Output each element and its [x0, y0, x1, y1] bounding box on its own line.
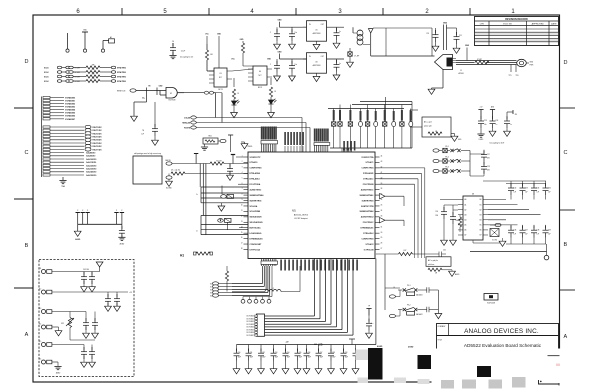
ground under FB1	[349, 56, 351, 62]
faint red artifact	[556, 364, 560, 367]
svg-text:DTRENABLE0: DTRENABLE0	[250, 237, 263, 240]
ground arrow under D1	[231, 113, 238, 118]
svg-text:33: 33	[381, 215, 383, 217]
svg-text:B1: B1	[480, 204, 482, 206]
svg-text:ROETE: ROETE	[184, 128, 191, 130]
net tie T3	[255, 297, 257, 300]
IC U8 level translator	[463, 196, 483, 240]
svg-text:R17: R17	[404, 250, 407, 252]
LED D2	[270, 97, 272, 100]
bus to Q flag	[470, 251, 547, 253]
ground TP below stack	[62, 177, 64, 180]
svg-text:UTDAC0: UTDAC0	[250, 161, 258, 164]
svg-text:DTRLADL2: DTRLADL2	[363, 232, 373, 235]
ground arrow at annotation box	[451, 133, 455, 135]
svg-text:GAL15/DX0: GAL15/DX0	[86, 174, 96, 177]
jack row 6 wire + bar ground	[52, 361, 58, 363]
resistor R17	[399, 252, 413, 255]
svg-text:DUTGND6: DUTGND6	[247, 332, 255, 334]
medium gray corruption blocks	[441, 380, 454, 389]
inductor L1 coil	[352, 27, 354, 33]
svg-text:B4: B4	[480, 219, 482, 221]
svg-text:44: 44	[381, 156, 383, 158]
wires from IC output arrows	[385, 195, 404, 197]
ground arrow under C25	[504, 131, 511, 136]
IC U1 right pin rows	[375, 156, 380, 158]
svg-text:C23: C23	[484, 120, 487, 122]
svg-text:C32: C32	[514, 188, 517, 190]
wire top rail to buffers	[206, 36, 208, 44]
svg-text:C57: C57	[320, 352, 323, 354]
ground arrow C57	[315, 369, 322, 374]
cap grid top rail	[483, 180, 546, 182]
svg-text:COLAB: COLAB	[184, 117, 191, 120]
svg-text:U2: U2	[170, 93, 172, 95]
bottom border line overlay	[33, 381, 431, 383]
svg-text:K3: K3	[210, 292, 212, 294]
jumper loop group 2 wires	[201, 215, 248, 217]
svg-text:J6: J6	[393, 287, 395, 289]
svg-text:C27: C27	[487, 154, 490, 156]
svg-text:10uF: 10uF	[308, 357, 311, 359]
prototype area box	[133, 156, 162, 184]
jack row 1 wire + caps	[52, 271, 100, 273]
svg-text:34: 34	[381, 210, 383, 212]
net tie T1	[242, 297, 244, 300]
svg-text:PS-2: PS-2	[445, 156, 449, 158]
svg-text:30: 30	[381, 232, 383, 234]
svg-text:RSLT5/DX: RSLT5/DX	[93, 143, 103, 145]
bottom-right frame corner remnant	[539, 383, 560, 385]
svg-text:C40: C40	[443, 250, 446, 252]
svg-text:J10: J10	[515, 114, 518, 116]
svg-text:GAL12/DX0: GAL12/DX0	[86, 164, 96, 167]
ground arrow C56	[303, 369, 310, 374]
svg-text:UTDAC2: UTDAC2	[366, 243, 374, 246]
svg-text:27: 27	[381, 248, 383, 250]
svg-text:X1 DNI: X1 DNI	[492, 240, 497, 242]
capacitor C50 bulk	[236, 345, 238, 352]
ferrite bead FB1	[349, 48, 351, 52]
regulator U5 ADP3303	[307, 21, 327, 42]
wire RAUTH1 to R12	[172, 163, 210, 165]
bottom supply rail	[237, 344, 376, 346]
ground arrow C31	[450, 240, 457, 245]
banana jack J16	[42, 360, 52, 364]
power bead row bus wires	[360, 101, 412, 103]
svg-text:1uF: 1uF	[141, 134, 144, 136]
svg-text:11: 11	[241, 210, 243, 212]
svg-text:10u: 10u	[295, 64, 298, 66]
ground arrow switch rows	[437, 290, 439, 313]
resistor R11 in annotation box	[428, 132, 442, 135]
svg-text:DTRLADL1: DTRLADL1	[363, 178, 374, 181]
gate output node ovals	[179, 92, 205, 94]
svg-text:GND: GND	[278, 20, 283, 22]
svg-text:10uF: 10uF	[250, 357, 253, 359]
ribbon connector J4 body	[257, 314, 265, 336]
svg-text:PS-2: PS-2	[407, 304, 411, 306]
wires U8 left	[444, 204, 458, 206]
svg-text:MC74: MC74	[218, 89, 222, 91]
DC plug P1	[517, 59, 527, 66]
svg-text:C28: C28	[487, 166, 490, 168]
resistor R18 below annotation	[428, 268, 442, 271]
svg-text:J1: J1	[460, 70, 462, 72]
svg-text:43: 43	[381, 161, 383, 163]
svg-text:SUBTRC/TPB: SUBTRC/TPB	[361, 206, 374, 208]
svg-text:SUBB/SUTMA1: SUBB/SUTMA1	[360, 194, 375, 197]
power flag in box	[96, 262, 103, 267]
wire regulator input rail 1	[280, 26, 307, 28]
relay box POD2	[407, 312, 415, 316]
svg-text:UTTPGC0A: UTTPGC0A	[250, 248, 261, 251]
svg-text:GAL8/DX0: GAL8/DX0	[86, 152, 95, 155]
svg-text:P: P	[77, 210, 78, 212]
svg-text:C56: C56	[308, 352, 311, 354]
svg-text:TAPALAB: TAPALAB	[182, 122, 191, 125]
IC U1 output arrows right	[380, 194, 386, 199]
svg-text:SUBTR/TRIG: SUBTR/TRIG	[362, 200, 374, 202]
ground arrow C52	[258, 369, 265, 374]
IC U1 bottom pin labels	[280, 260, 282, 271]
banana jack J13	[42, 310, 52, 314]
light gray corruption blocks	[356, 350, 370, 361]
capacitor C52 bulk	[260, 345, 262, 352]
power rail to jack wire	[371, 55, 435, 57]
ground under C20	[435, 42, 437, 46]
svg-text:VGFA/DIB4: VGFA/DIB4	[65, 109, 76, 112]
svg-text:29: 29	[381, 237, 383, 239]
svg-text:10u: 10u	[295, 32, 298, 34]
annotation box: analog/digital ground plane split	[422, 117, 451, 137]
svg-text:13: 13	[241, 221, 243, 223]
svg-text:OUT: OUT	[321, 56, 324, 58]
capacitor Cout2	[336, 59, 338, 63]
revision record table	[475, 17, 559, 46]
svg-text:GND: GND	[443, 23, 448, 25]
svg-text:C35: C35	[548, 188, 551, 190]
svg-text:K2: K2	[210, 289, 212, 291]
capacitor C57 bulk	[318, 345, 320, 352]
svg-text:1>: 1>	[196, 193, 198, 196]
svg-text:TP6: TP6	[516, 75, 519, 77]
capacitor C27 DNI	[470, 153, 484, 155]
svg-text:GND: GND	[465, 45, 470, 47]
capacitor C37	[522, 225, 524, 229]
supply flag VCC	[368, 29, 373, 33]
svg-text:SPIA/TRIG: SPIA/TRIG	[117, 66, 127, 69]
capacitor C53 bulk	[273, 345, 275, 352]
svg-text:1uF: 1uF	[525, 234, 528, 236]
wire from gate to bus	[215, 93, 217, 118]
svg-text:C63 C64: C63 C64	[83, 269, 89, 271]
comb into IC top right	[341, 148, 343, 152]
top power rail wire	[373, 27, 432, 29]
svg-text:RSLT1/DX: RSLT1/DX	[93, 130, 103, 132]
banana jack J14	[42, 325, 52, 329]
svg-text:CONFIG/SET: CONFIG/SET	[250, 244, 263, 246]
title block frame	[437, 324, 559, 357]
bead row bus wire lower	[330, 147, 412, 149]
ferrite bead FB7	[400, 122, 404, 126]
buffer U3	[214, 68, 227, 87]
svg-text:A: A	[25, 332, 29, 338]
svg-text:SUBB/SUTMA2: SUBB/SUTMA2	[360, 210, 374, 213]
svg-text:B7: B7	[480, 235, 482, 237]
svg-text:B5: B5	[480, 225, 482, 227]
dashed power input box	[39, 260, 134, 377]
resistor R19	[196, 252, 210, 255]
jack row 4 wire + ground	[52, 326, 59, 328]
resistor R6	[233, 78, 235, 87]
svg-text:DUTGND2: DUTGND2	[247, 321, 255, 323]
svg-text:P: P	[116, 210, 117, 212]
U8 to cap-grid bus wires	[488, 199, 506, 201]
svg-text:C52: C52	[262, 352, 265, 354]
svg-text:ANALOG DEVICES INC.: ANALOG DEVICES INC.	[464, 328, 539, 335]
svg-text:C59: C59	[345, 352, 348, 354]
svg-text:C: C	[564, 150, 568, 156]
IC U1 bottom pin comb left group	[261, 259, 263, 267]
svg-text:1uF: 1uF	[525, 191, 528, 193]
ground under Cin2b	[291, 73, 293, 76]
black corruption blocks	[368, 348, 383, 380]
svg-text:J11: J11	[39, 268, 41, 270]
svg-text:DATE: DATE	[551, 23, 557, 26]
bar ground under C23	[477, 134, 484, 137]
svg-text:1u: 1u	[496, 124, 498, 126]
svg-text:U5: U5	[315, 30, 317, 32]
svg-text:35: 35	[381, 205, 383, 207]
svg-text:U1: U1	[292, 209, 296, 213]
svg-text:SYSFRC/TPA: SYSFRC/TPA	[361, 156, 374, 159]
svg-text:BUSY/LDAC: BUSY/LDAC	[250, 227, 262, 230]
capacitor Cout1	[336, 27, 338, 31]
regulator 2 ground stub	[316, 73, 318, 76]
ground arrow between loops	[220, 203, 222, 206]
test point at wire row right	[232, 155, 234, 164]
svg-text:ECO NO: ECO NO	[503, 24, 512, 26]
svg-text:C6: C6	[172, 41, 174, 43]
svg-text:41: 41	[381, 172, 383, 174]
resistor network RN1	[203, 138, 218, 144]
svg-text:10u: 10u	[484, 124, 487, 126]
bank B feed stub	[351, 339, 353, 345]
capacitor C51 bulk	[248, 345, 250, 352]
white corruption blocks	[436, 349, 565, 382]
ground arrow under CL wire	[131, 116, 138, 121]
capacitor C42	[417, 309, 426, 311]
svg-text:10uF: 10uF	[345, 357, 348, 359]
svg-text:DUTGND1: DUTGND1	[247, 318, 255, 320]
svg-text:U6: U6	[315, 62, 317, 64]
test point cap group (TP7/C23)	[478, 110, 483, 117]
svg-text:C21: C21	[459, 35, 462, 37]
capacitor C28 DNI	[483, 163, 485, 165]
svg-text:BC7S08: BC7S08	[169, 99, 176, 101]
svg-text:14: 14	[241, 226, 243, 228]
svg-text:MC74: MC74	[258, 87, 262, 89]
crossing stubs	[414, 250, 416, 258]
ground under Cout1	[333, 43, 340, 48]
svg-text:NC7: NC7	[219, 77, 222, 79]
svg-text:VGFA/DIB5: VGFA/DIB5	[65, 112, 75, 115]
capacitor C30 DNI	[443, 205, 445, 210]
test point stubs TP5 TP6	[510, 65, 512, 73]
resistor R16	[459, 215, 461, 217]
svg-text:AGND: AGND	[75, 238, 81, 241]
resistor R20 vertical	[226, 266, 228, 271]
ribbon bus staircase wires	[265, 315, 315, 317]
svg-text:1u: 1u	[372, 323, 374, 325]
svg-text:C50: C50	[238, 352, 241, 354]
ground arrow left of TP row	[77, 224, 79, 231]
row 3 caps lower	[70, 339, 95, 341]
svg-text:SDI/DACBUS: SDI/DACBUS	[250, 216, 263, 219]
ground arrow C59	[340, 369, 347, 374]
svg-text:UTDAC1: UTDAC1	[366, 161, 375, 164]
regulator 1 ground stub	[316, 41, 318, 44]
net oval RAUTH2	[166, 176, 172, 179]
svg-text:P: P	[121, 210, 122, 212]
ground arrow under timer cap	[152, 140, 159, 145]
ground arrow right of U8	[502, 238, 504, 241]
svg-text:COMP2/TRIG: COMP2/TRIG	[361, 238, 374, 240]
svg-text:DUTGND5: DUTGND5	[247, 329, 255, 331]
svg-text:SDO/DACBUS: SDO/DACBUS	[250, 221, 264, 224]
svg-text:18: 18	[241, 248, 243, 250]
test point TP3	[102, 41, 104, 50]
svg-text:10uF: 10uF	[299, 357, 302, 359]
svg-text:1uF: 1uF	[537, 234, 540, 236]
svg-text:SPIA/TRIG: SPIA/TRIG	[117, 80, 127, 83]
Q net flag	[544, 255, 549, 260]
svg-text:GAL11/DX0: GAL11/DX0	[86, 161, 96, 164]
svg-text:RSLT0/DX: RSLT0/DX	[93, 127, 103, 129]
svg-text:DTRENABLE1: DTRENABLE1	[360, 227, 374, 230]
test point TP12	[366, 309, 371, 316]
svg-text:SCLK/DINB: SCLK/DINB	[250, 211, 261, 213]
svg-text:1>: 1>	[196, 230, 198, 233]
svg-text:1uF: 1uF	[548, 191, 551, 193]
svg-text:SCLK: SCLK	[44, 81, 49, 83]
capacitor C56 bulk	[306, 345, 308, 352]
svg-text:FOO/TRIGC: FOO/TRIGC	[363, 222, 374, 224]
svg-text:RSLT4/DX: RSLT4/DX	[93, 139, 103, 142]
capacitor C20	[435, 28, 437, 33]
TPGND arrow	[241, 141, 245, 143]
net tie T2	[249, 297, 251, 300]
svg-text:GND: GND	[278, 52, 283, 54]
svg-text:1uF: 1uF	[537, 191, 540, 193]
svg-text:NC7: NC7	[258, 75, 261, 77]
ground under C21	[456, 44, 458, 48]
svg-text:DGND: DGND	[408, 347, 414, 349]
svg-text:APPROVED: APPROVED	[532, 23, 545, 26]
svg-text:JP 4R7: JP 4R7	[477, 59, 482, 61]
capacitor C60 bulk	[355, 345, 357, 352]
ground arrow under C24	[489, 131, 496, 136]
svg-text:1uF: 1uF	[548, 234, 551, 236]
regulator 2 output wire	[327, 58, 345, 60]
svg-text:LTR: LTR	[480, 24, 484, 26]
jack row 3 wire + pot	[52, 311, 86, 313]
svg-text:ALWD/TSMC2: ALWD/TSMC2	[361, 216, 374, 219]
svg-text:TE: TE	[142, 130, 144, 132]
svg-text:C24: C24	[496, 120, 499, 122]
ferrite bead FB3	[338, 122, 342, 126]
svg-text:U8: U8	[472, 193, 474, 195]
capacitor C34	[533, 181, 535, 186]
svg-text:SUBTR/TRIG: SUBTR/TRIG	[250, 200, 262, 202]
ferrite bead FB2	[332, 122, 336, 126]
wire from IC corner down	[384, 254, 386, 310]
svg-text:K0: K0	[210, 283, 212, 285]
ground arrow C50	[233, 369, 240, 374]
svg-text:D: D	[564, 60, 568, 66]
svg-text:COMP1/TRIG: COMP1/TRIG	[361, 168, 374, 170]
svg-text:REVISION RECORD: REVISION RECORD	[505, 18, 528, 21]
svg-text:DUTGND4: DUTGND4	[247, 327, 255, 329]
svg-text:VGFA/DIB2: VGFA/DIB2	[65, 103, 75, 106]
bus stack vertical rail	[41, 97, 43, 178]
svg-text:C58: C58	[332, 352, 335, 354]
svg-text:RSLT3/DX: RSLT3/DX	[93, 137, 103, 139]
svg-text:C34: C34	[537, 188, 540, 190]
ground arrow under D2	[268, 113, 275, 118]
capacitor C31 DNI	[452, 205, 454, 215]
svg-text:ADP3303: ADP3303	[313, 32, 321, 35]
svg-text:RSLT7/DX: RSLT7/DX	[93, 149, 103, 151]
ferrite bead FB6	[383, 122, 387, 126]
header P1 upper pin stack	[43, 96, 50, 98]
svg-text:DTRLADN0: DTRLADN0	[250, 172, 260, 175]
LED D1	[233, 99, 235, 101]
inductor L2 horizontal	[232, 291, 265, 293]
svg-text:LOAD/GANG: LOAD/GANG	[250, 232, 262, 235]
svg-text:VGFA/DIB1: VGFA/DIB1	[65, 99, 75, 102]
svg-text:C37: C37	[525, 230, 528, 232]
svg-text:B2: B2	[480, 209, 482, 211]
wires comb to left connector	[262, 266, 264, 284]
svg-text:B6: B6	[480, 230, 482, 232]
connector J3 oval stack	[213, 282, 219, 285]
svg-text:ATX08: ATX08	[458, 72, 463, 75]
capacitor Cin2a	[276, 59, 278, 64]
svg-text:H1: H1	[180, 254, 184, 258]
capacitor C55 bulk	[297, 345, 299, 352]
annotation box 2: gnd plane split	[426, 257, 451, 267]
capacitor C54 bulk	[285, 345, 287, 352]
stamp box SLMT	[484, 294, 498, 301]
IC U1 top wires middle group	[284, 146, 286, 152]
header P1 lower pin stack	[43, 126, 50, 128]
svg-text:15: 15	[241, 232, 243, 234]
svg-text:PS-3: PS-3	[445, 166, 449, 168]
svg-text:R12 0R: R12 0R	[216, 161, 222, 163]
regulator 1 output wire	[327, 26, 345, 28]
U8 ground stub	[472, 240, 474, 243]
capacitor C40	[438, 252, 440, 257]
test point at wire row	[195, 154, 197, 164]
test point TP1	[67, 33, 69, 49]
svg-text:C51: C51	[250, 352, 253, 354]
svg-text:VGFA/DIB6: VGFA/DIB6	[65, 115, 75, 118]
svg-text:RESET_IN: RESET_IN	[117, 90, 126, 92]
svg-text:TITLE: TITLE	[438, 340, 442, 342]
svg-text:RSLT6/DX: RSLT6/DX	[93, 146, 103, 148]
